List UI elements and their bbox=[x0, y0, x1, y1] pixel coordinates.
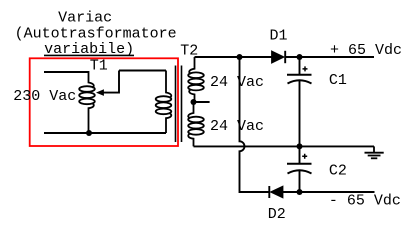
svg-text:24 Vac: 24 Vac bbox=[210, 74, 264, 91]
wire D1 cathode to +65 output bbox=[285, 56, 374, 58]
junction T1 bottom bbox=[86, 130, 92, 136]
variac wiper arrow bbox=[97, 71, 119, 96]
wire wiper tap run to T2 primary bbox=[119, 70, 166, 72]
svg-text:C2: C2 bbox=[329, 163, 347, 180]
wire C2 top lead bbox=[299, 146, 301, 163]
transformer T2 core bbox=[176, 66, 182, 143]
wire C1 top lead bbox=[299, 57, 301, 75]
junction ground rail at C1/C2 bbox=[297, 143, 303, 149]
junction top rail at C1 bbox=[297, 54, 303, 60]
svg-text:Variac: Variac bbox=[58, 10, 112, 27]
diode D2 bbox=[269, 186, 283, 198]
junction -65 rail at C2 bbox=[297, 189, 303, 195]
svg-text:(Autotrasformatore: (Autotrasformatore bbox=[15, 25, 177, 42]
svg-text:D1: D1 bbox=[270, 28, 288, 45]
capacitor C2 bbox=[287, 154, 312, 174]
svg-text:+ 65 Vdc: + 65 Vdc bbox=[330, 42, 402, 59]
svg-text:24 Vac: 24 Vac bbox=[210, 118, 264, 135]
svg-text:C1: C1 bbox=[329, 72, 347, 89]
wire 230Vac input bottom / T1 bottom rail bbox=[44, 132, 166, 134]
svg-text:T1: T1 bbox=[90, 57, 108, 74]
junction top rail at tap-down wire bbox=[237, 54, 243, 60]
wire ground rail (secondary bottom to ground) bbox=[194, 145, 375, 147]
wire C2 bottom lead bbox=[299, 170, 301, 192]
wire D2 anode to -65 output bbox=[283, 191, 375, 193]
node secondary center tap stub bbox=[191, 99, 210, 105]
wire C1 bottom lead to ground rail bbox=[299, 81, 301, 146]
wire 230Vac input top bbox=[44, 71, 89, 73]
transformer T2 primary coil bbox=[156, 71, 172, 134]
transformer T2 secondary upper coil bbox=[188, 57, 204, 102]
label title "Variac (Autotrasformatore variabile)" bbox=[15, 10, 177, 58]
ground bbox=[365, 146, 384, 158]
svg-text:- 65 Vdc: - 65 Vdc bbox=[329, 193, 401, 210]
transformer T1 variac winding bbox=[79, 71, 95, 133]
svg-text:230 Vac: 230 Vac bbox=[13, 88, 76, 105]
transformer T2 secondary lower coil bbox=[188, 102, 204, 146]
wire top rail (secondary top to D1) bbox=[195, 56, 272, 58]
diode D1 bbox=[272, 51, 286, 63]
svg-text:D2: D2 bbox=[268, 206, 286, 223]
wire vertical from top rail down to D2 (with hop) bbox=[240, 57, 269, 192]
capacitor C1 bbox=[287, 66, 312, 83]
variac enclosure box bbox=[30, 58, 178, 146]
